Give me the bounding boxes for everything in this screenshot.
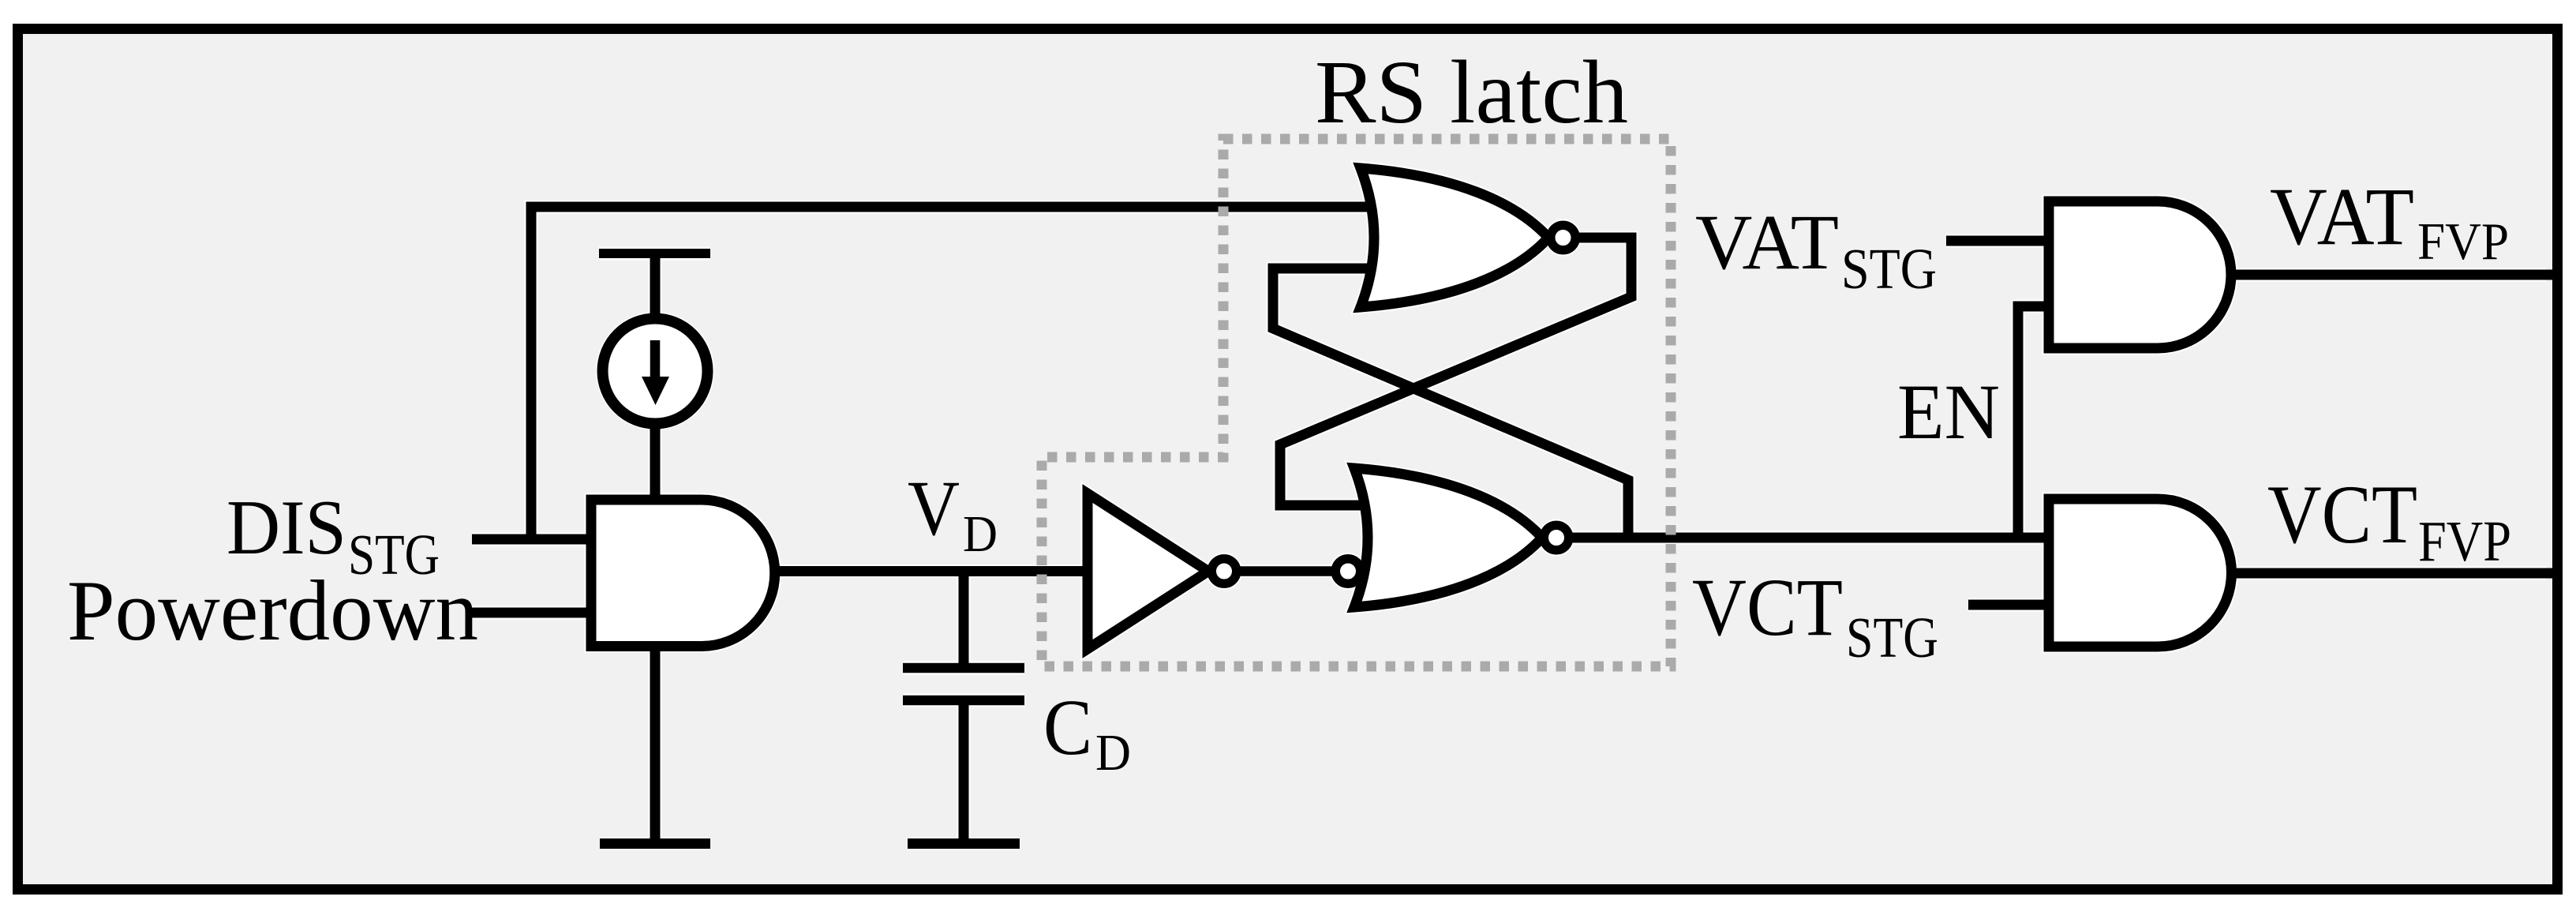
svg-text:STG: STG (1841, 237, 1937, 301)
svg-text:VAT: VAT (2270, 171, 2414, 262)
svg-text:C: C (1043, 683, 1092, 771)
svg-text:STG: STG (1846, 606, 1938, 670)
svg-text:VCT: VCT (2267, 468, 2417, 561)
svg-text:FVP: FVP (2418, 509, 2511, 573)
svg-text:DIS: DIS (227, 485, 346, 571)
svg-text:FVP: FVP (2417, 212, 2509, 271)
svg-text:VCT: VCT (1692, 562, 1843, 653)
svg-text:D: D (963, 505, 998, 563)
svg-text:RS latch: RS latch (1315, 42, 1628, 142)
svg-text:Powerdown: Powerdown (67, 563, 478, 658)
svg-text:VAT: VAT (1695, 198, 1839, 286)
svg-text:V: V (908, 464, 960, 552)
svg-text:EN: EN (1897, 368, 2000, 456)
svg-text:D: D (1095, 724, 1131, 782)
